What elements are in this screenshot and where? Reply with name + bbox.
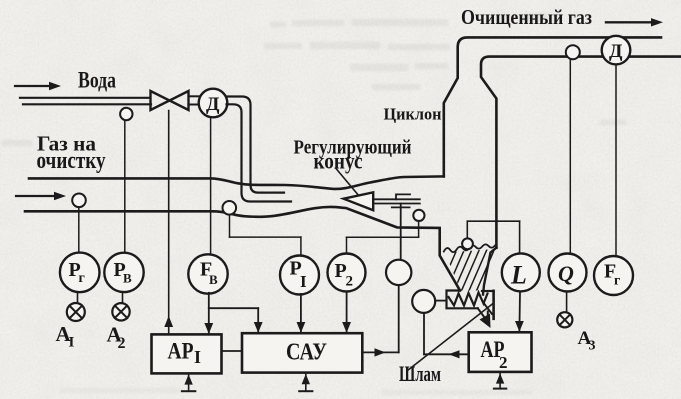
instrument Q <box>549 254 587 292</box>
svg-text:Д: Д <box>206 95 220 115</box>
regulator АР1 <box>152 334 222 373</box>
svg-text:АР: АР <box>168 339 194 364</box>
connector АР1-САУ <box>222 350 243 352</box>
svg-text:Вода: Вода <box>78 68 116 93</box>
svg-text:Шлам: Шлам <box>399 361 441 386</box>
valve <box>151 91 189 110</box>
label Газ на очистку <box>37 132 106 175</box>
svg-text:2: 2 <box>118 335 126 352</box>
water tap node <box>120 108 132 254</box>
screw conveyor trough <box>447 291 494 319</box>
sludge flow arrow <box>480 314 491 329</box>
cyclone left wall and outlet pipe top <box>444 37 661 176</box>
svg-text:3: 3 <box>589 339 596 354</box>
svg-text:Д: Д <box>609 42 623 62</box>
level tap node <box>462 221 519 253</box>
regulating cone <box>344 192 374 210</box>
power stem АР2 <box>494 372 506 388</box>
hopper right wall <box>483 248 496 295</box>
regulator АР2 <box>469 332 532 372</box>
svg-text:Очищенный газ: Очищенный газ <box>461 5 592 29</box>
svg-text:I: I <box>300 272 307 291</box>
cone actuator circle <box>362 260 411 357</box>
cyclone right wall and outlet pipe bottom <box>481 57 681 248</box>
valve control line from АР1 <box>164 111 173 335</box>
instrument Рв <box>104 253 143 292</box>
wire valve to flow sensor <box>189 96 201 104</box>
power stem АР1 <box>182 374 195 391</box>
alarm lamp А1 <box>56 293 85 351</box>
Р1 output to САУ <box>300 294 302 332</box>
svg-text:очистку: очистку <box>37 148 106 174</box>
L output to АР2 <box>518 291 521 331</box>
svg-text:2: 2 <box>499 353 508 372</box>
duct top contour <box>29 176 444 189</box>
clean gas tap node <box>566 45 580 254</box>
instrument Рг <box>60 253 100 293</box>
svg-text:САУ: САУ <box>286 340 327 366</box>
instrument Fв <box>188 117 227 293</box>
gas tap node 1 <box>72 194 86 253</box>
Fв output to АР1 and САУ <box>209 293 258 334</box>
cone rod <box>374 199 420 203</box>
Р2 output to САУ <box>346 292 348 333</box>
svg-text:г: г <box>79 271 85 286</box>
controller САУ <box>242 333 362 372</box>
flow sensor Д1 <box>199 89 228 118</box>
actuator stem <box>400 204 402 260</box>
instrument Р1 <box>280 256 319 295</box>
flow arrow clean gas <box>606 18 663 26</box>
instrument Fг <box>594 256 633 295</box>
duct bottom contour <box>25 207 460 291</box>
svg-text:Q: Q <box>558 261 574 286</box>
instrument Р2 <box>328 254 366 292</box>
throat tap node <box>347 210 425 254</box>
sludge outlet chute <box>478 304 492 320</box>
flow sensor Д2 <box>602 36 631 256</box>
svg-text:2: 2 <box>346 274 354 290</box>
water pipe <box>20 98 151 105</box>
hopper water surface wavy line <box>444 244 495 252</box>
flow arrow gas inlet <box>16 192 66 200</box>
hopper hatching <box>438 247 503 293</box>
screw spring zigzag <box>449 293 488 306</box>
svg-text:L: L <box>510 261 527 290</box>
instrument L <box>502 253 540 291</box>
label Регулирующий конус <box>294 137 412 174</box>
svg-text:Циклон: Циклон <box>384 105 442 124</box>
leader line to cone <box>336 169 360 197</box>
rod crossbar <box>392 206 410 208</box>
leader line from Шлам to screw <box>408 304 494 371</box>
flow arrow water inlet <box>15 82 61 90</box>
water pipe bend down to venturi <box>227 97 292 202</box>
svg-text:I: I <box>69 335 75 351</box>
rod bracket top <box>396 194 410 199</box>
svg-text:В: В <box>209 272 218 287</box>
svg-text:В: В <box>123 271 132 286</box>
gas tap node 2 before throat <box>223 201 301 255</box>
alarm lamp А2 <box>107 293 130 353</box>
svg-text:I: I <box>194 347 201 367</box>
svg-text:г: г <box>614 274 620 289</box>
alarm lamp А3 <box>557 292 595 354</box>
power stem САУ <box>299 373 312 391</box>
screw actuator circle <box>412 290 468 359</box>
